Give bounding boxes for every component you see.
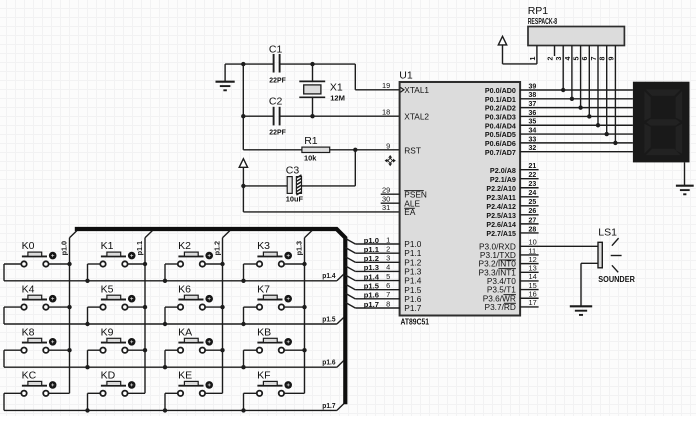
wire PSEN stub pin 29 bbox=[381, 193, 401, 195]
svg-text:22: 22 bbox=[529, 172, 537, 179]
wire ALE stub pin 30 bbox=[381, 202, 401, 204]
pin P3.5/T1 (15) label bbox=[487, 281, 537, 295]
node junction C2 left bbox=[241, 114, 245, 118]
svg-text:9: 9 bbox=[386, 142, 390, 151]
transistor(button) K0 bbox=[4, 240, 70, 281]
pin XTAL2 (18) label bbox=[382, 108, 429, 122]
svg-text:XTAL2: XTAL2 bbox=[404, 111, 429, 121]
svg-text:30: 30 bbox=[382, 195, 390, 204]
svg-text:P1.7: P1.7 bbox=[404, 303, 421, 313]
svg-text:p1.3: p1.3 bbox=[294, 241, 303, 256]
svg-text:P0.5/AD5: P0.5/AD5 bbox=[485, 130, 517, 139]
resistor R1 bbox=[243, 135, 400, 162]
transistor(button) KF bbox=[244, 370, 305, 411]
wire P3.6 stub pin 16 bbox=[520, 297, 539, 299]
svg-text:K8: K8 bbox=[22, 326, 35, 338]
svg-text:K4: K4 bbox=[22, 283, 35, 295]
wire P0.2 pin 37 bbox=[520, 107, 633, 109]
node junction KD drop bbox=[85, 408, 89, 412]
wire P0.3 pin 36 bbox=[520, 115, 633, 117]
transistor(button) K7 bbox=[244, 283, 305, 324]
node junction RP1 pin 4 bbox=[570, 97, 574, 101]
node junction K6 column bbox=[220, 305, 224, 309]
svg-text:37: 37 bbox=[529, 101, 537, 108]
wire P3.3 stub pin 13 bbox=[520, 271, 539, 273]
svg-text:19: 19 bbox=[382, 81, 390, 90]
node junction KF drop bbox=[241, 408, 245, 412]
wire RST to C3 bbox=[302, 150, 356, 186]
svg-text:32: 32 bbox=[529, 145, 537, 152]
svg-text:17: 17 bbox=[529, 298, 537, 307]
svg-text:23: 23 bbox=[529, 181, 537, 188]
svg-text:21: 21 bbox=[529, 163, 537, 170]
power VCC arrow (C3) bbox=[239, 159, 247, 186]
wire keypad row p1.5 bbox=[4, 317, 344, 324]
wire P1.6 from bus bbox=[345, 293, 400, 299]
svg-text:p1.4: p1.4 bbox=[322, 271, 336, 280]
node junction RP1 pin 9 bbox=[613, 141, 617, 145]
node junction RP1 pin 5 bbox=[578, 105, 582, 109]
pin RST (9) label bbox=[386, 142, 421, 156]
svg-text:XTAL1: XTAL1 bbox=[404, 85, 429, 95]
svg-text:p1.0: p1.0 bbox=[364, 236, 379, 245]
pin P0.5/AD5 (34) label bbox=[485, 127, 536, 139]
svg-text:KE: KE bbox=[178, 370, 192, 382]
ground (display) bbox=[676, 186, 694, 195]
svg-text:5: 5 bbox=[386, 272, 390, 281]
svg-text:14: 14 bbox=[529, 272, 537, 281]
svg-text:P0.2/AD2: P0.2/AD2 bbox=[485, 104, 516, 113]
svg-text:p1.6: p1.6 bbox=[364, 291, 379, 300]
wire display to ground bbox=[684, 162, 686, 185]
svg-text:6: 6 bbox=[582, 57, 589, 61]
transistor(button) KC bbox=[4, 370, 70, 411]
svg-text:P0.1/AD1: P0.1/AD1 bbox=[485, 95, 517, 104]
svg-text:K9: K9 bbox=[101, 326, 114, 338]
transistor(button) K3 bbox=[244, 240, 305, 281]
node junction RST/R1 bbox=[353, 148, 357, 152]
svg-text:4: 4 bbox=[565, 57, 572, 61]
svg-text:X1: X1 bbox=[330, 82, 343, 94]
svg-text:3: 3 bbox=[556, 57, 563, 61]
wire keypad column p1.1 bbox=[145, 231, 152, 394]
node junction K2 column bbox=[220, 262, 224, 266]
svg-text:LS1: LS1 bbox=[598, 227, 617, 239]
wire P2.5 stub pin 26 bbox=[520, 214, 539, 216]
node junction K9 column bbox=[143, 348, 147, 352]
transistor(button) K2 bbox=[165, 240, 223, 281]
svg-text:3: 3 bbox=[386, 254, 390, 263]
node junction K5 drop bbox=[85, 322, 89, 326]
pin P2.4/A12 (25) label bbox=[486, 199, 536, 211]
svg-text:P0.3/AD3: P0.3/AD3 bbox=[485, 113, 516, 122]
wire P1.7 from bus bbox=[345, 302, 400, 308]
wire keypad row p1.6 bbox=[4, 360, 344, 367]
svg-text:9: 9 bbox=[608, 57, 615, 61]
pin XTAL1 (19) label bbox=[382, 81, 429, 95]
svg-text:p1.5: p1.5 bbox=[322, 314, 335, 323]
wire P3.0 to sounder pin 10 bbox=[520, 245, 598, 247]
crystal X1 bbox=[299, 64, 345, 116]
pin P3.4/T0 (14) label bbox=[487, 272, 537, 286]
pin P1.0 (1) label bbox=[386, 235, 422, 249]
svg-text:22PF: 22PF bbox=[269, 75, 286, 84]
svg-text:P2.3/A11: P2.3/A11 bbox=[486, 193, 516, 202]
wire P3.7 stub pin 17 bbox=[520, 306, 539, 308]
pin P2.1/A9 (22) label bbox=[490, 172, 536, 184]
wire P3.5 stub pin 15 bbox=[520, 289, 539, 291]
node junction X1 bottom bbox=[310, 114, 314, 118]
svg-text:1: 1 bbox=[386, 235, 390, 244]
wire keypad column p1.2 bbox=[223, 231, 230, 394]
node junction KB column bbox=[302, 348, 306, 352]
svg-text:p1.6: p1.6 bbox=[322, 358, 335, 367]
pin P0.0/AD0 (39) label bbox=[485, 83, 536, 95]
svg-text:12M: 12M bbox=[330, 94, 345, 103]
wire RP1 pin 8 to P0.5 bbox=[600, 46, 607, 135]
wire P3.1 stub pin 11 bbox=[520, 254, 539, 256]
capacitor C1 bbox=[269, 43, 286, 84]
wire to XTAL1 bbox=[355, 64, 400, 90]
pin P2.3/A11 (24) label bbox=[486, 190, 536, 202]
node junction K2 drop bbox=[163, 279, 167, 283]
node junction X1-top bbox=[310, 62, 314, 66]
wire RP1 pin 5 to P0.2 bbox=[574, 46, 581, 108]
wire P0.4 pin 35 bbox=[520, 124, 633, 126]
svg-text:16: 16 bbox=[529, 290, 537, 299]
svg-text:22PF: 22PF bbox=[269, 127, 286, 136]
svg-text:P2.6/A14: P2.6/A14 bbox=[486, 220, 516, 229]
pin XTAL1 input chevron bbox=[400, 87, 404, 92]
node junction K0 column bbox=[67, 262, 71, 266]
svg-text:35: 35 bbox=[529, 119, 537, 126]
pin P2.6/A14 (27) label bbox=[486, 217, 536, 229]
svg-text:39: 39 bbox=[529, 83, 537, 90]
speaker LS1 SOUNDER bbox=[598, 227, 635, 284]
7-segment display body bbox=[633, 82, 690, 163]
transistor(button) K9 bbox=[88, 326, 146, 367]
wire keypad column p1.0 bbox=[70, 231, 77, 394]
pin P1.1 (2) label bbox=[386, 244, 422, 258]
svg-text:8: 8 bbox=[386, 299, 390, 308]
node junction RP1 pin 3 bbox=[561, 88, 565, 92]
wire RP1 pin 4 to P0.1 bbox=[565, 46, 572, 99]
svg-text:p1.1: p1.1 bbox=[364, 245, 379, 254]
node junction KA column bbox=[220, 348, 224, 352]
svg-text:10uF: 10uF bbox=[286, 194, 304, 203]
transistor(button) K1 bbox=[88, 240, 146, 281]
svg-text:29: 29 bbox=[382, 186, 390, 195]
wire P1.2 from bus bbox=[345, 257, 400, 263]
svg-text:2: 2 bbox=[547, 57, 554, 61]
node junction K6 drop bbox=[163, 322, 167, 326]
pin P1.2 (3) label bbox=[386, 254, 422, 268]
svg-text:7: 7 bbox=[591, 57, 598, 61]
svg-text:p1.2: p1.2 bbox=[364, 254, 379, 263]
wire P3.2 stub pin 12 bbox=[520, 263, 539, 265]
wire sounder to ground bbox=[581, 263, 598, 306]
pin P3.0/RXD (10) label bbox=[479, 238, 537, 252]
svg-text:p1.7: p1.7 bbox=[364, 300, 379, 309]
wire P0.0 pin 39 bbox=[520, 89, 633, 91]
svg-text:KA: KA bbox=[178, 326, 192, 338]
pin P1.7 (8) label bbox=[386, 299, 422, 313]
pin PSEN (29) label bbox=[382, 186, 427, 200]
origin marker near RST bbox=[385, 155, 396, 166]
wire RP1 pin 7 to P0.4 bbox=[591, 46, 598, 126]
wire C2 row bbox=[243, 115, 400, 117]
pin P2.7/A15 (28) label bbox=[486, 226, 536, 238]
svg-text:10: 10 bbox=[529, 238, 537, 247]
pin ALE (30) label bbox=[382, 195, 420, 209]
wire P0.7 pin 32 bbox=[520, 151, 633, 153]
svg-text:P2.1/A9: P2.1/A9 bbox=[490, 175, 516, 184]
svg-text:34: 34 bbox=[529, 127, 537, 134]
wire RP1 pin 9 to P0.6 bbox=[608, 46, 615, 143]
wire P0.1 pin 38 bbox=[520, 98, 633, 100]
svg-text:K7: K7 bbox=[257, 283, 270, 295]
svg-text:C2: C2 bbox=[269, 96, 283, 108]
pin P0.1/AD1 (38) label bbox=[485, 92, 536, 104]
transistor(button) K6 bbox=[165, 283, 223, 324]
svg-text:p1.3: p1.3 bbox=[364, 263, 379, 272]
svg-text:p1.4: p1.4 bbox=[364, 272, 380, 281]
svg-text:33: 33 bbox=[529, 136, 537, 143]
svg-text:P2.0/A8: P2.0/A8 bbox=[490, 166, 517, 175]
wire bbox=[280, 63, 356, 65]
pin P0.2/AD2 (37) label bbox=[485, 101, 536, 113]
svg-text:p1.0: p1.0 bbox=[59, 241, 68, 256]
svg-text:12: 12 bbox=[529, 255, 537, 264]
svg-text:C3: C3 bbox=[286, 165, 300, 177]
svg-text:KB: KB bbox=[257, 326, 271, 338]
wire P2.3 stub pin 24 bbox=[520, 196, 539, 198]
wire keypad column p1.3 bbox=[305, 231, 312, 394]
pin EA (31) label bbox=[382, 203, 416, 217]
node junction KE drop bbox=[163, 408, 167, 412]
node junction C1-left/gnd bbox=[241, 62, 245, 66]
wire bbox=[225, 63, 274, 65]
svg-text:K5: K5 bbox=[101, 283, 114, 295]
svg-text:K3: K3 bbox=[257, 240, 270, 252]
svg-text:K1: K1 bbox=[101, 240, 114, 252]
svg-text:P2.5/A13: P2.5/A13 bbox=[486, 211, 516, 220]
node junction K8 column bbox=[67, 348, 71, 352]
svg-text:p1.5: p1.5 bbox=[364, 282, 379, 291]
svg-text:RST: RST bbox=[404, 145, 421, 155]
wire VCC to C3 bbox=[243, 185, 287, 187]
svg-text:K6: K6 bbox=[178, 283, 191, 295]
svg-text:AT89C51: AT89C51 bbox=[401, 317, 430, 326]
svg-text:15: 15 bbox=[529, 281, 537, 290]
svg-text:10k: 10k bbox=[304, 153, 317, 162]
pin P3.1/TXD (11) label bbox=[480, 246, 536, 260]
wire P3.4 stub pin 14 bbox=[520, 280, 539, 282]
svg-text:27: 27 bbox=[529, 217, 537, 224]
ground bbox=[216, 64, 235, 90]
pin P3.2/INT0 (12) label bbox=[479, 255, 537, 269]
node junction K7 column bbox=[302, 305, 306, 309]
node junction K1 column bbox=[143, 262, 147, 266]
transistor(button) K5 bbox=[88, 283, 146, 324]
wire P1.0 from bus bbox=[345, 238, 400, 244]
svg-text:P2.7/A15: P2.7/A15 bbox=[486, 229, 516, 238]
svg-text:6: 6 bbox=[386, 281, 390, 290]
pin P2.2/A10 (23) label bbox=[486, 181, 536, 193]
svg-text:p1.1: p1.1 bbox=[135, 241, 144, 256]
svg-text:P0.7/AD7: P0.7/AD7 bbox=[485, 148, 516, 157]
bus P1 (thick) bbox=[75, 229, 346, 404]
svg-text:38: 38 bbox=[529, 92, 537, 99]
svg-text:SOUNDER: SOUNDER bbox=[598, 275, 635, 284]
node junction K4 column bbox=[67, 305, 71, 309]
transistor(button) K4 bbox=[4, 283, 70, 324]
wire RP1 pin 1 bbox=[503, 46, 537, 64]
svg-text:P0.6/AD6: P0.6/AD6 bbox=[485, 139, 516, 148]
resistor pack RP1 RESPACK-8 body bbox=[528, 5, 625, 45]
wire keypad row p1.7 bbox=[4, 404, 344, 411]
svg-text:26: 26 bbox=[529, 208, 537, 215]
wire P1.1 from bus bbox=[345, 248, 400, 254]
wire P0.6 pin 33 bbox=[520, 142, 633, 144]
wire P0.5 pin 34 bbox=[520, 133, 633, 135]
wire keypad row p1.4 bbox=[4, 274, 344, 281]
svg-text:P2.2/A10: P2.2/A10 bbox=[486, 184, 516, 193]
wire RP1 pin 6 to P0.3 bbox=[582, 46, 589, 117]
wire VCC to EA bbox=[243, 186, 400, 212]
transistor(button) KA bbox=[165, 326, 223, 367]
node junction K1 drop bbox=[85, 279, 89, 283]
wire P2.1 stub pin 22 bbox=[520, 178, 539, 180]
pin P0.7/AD7 (32) label bbox=[485, 145, 536, 157]
svg-text:K2: K2 bbox=[178, 240, 191, 252]
pin P0.3/AD3 (36) label bbox=[485, 110, 536, 122]
pin P1.5 (6) label bbox=[386, 281, 422, 295]
svg-text:P0.4/AD4: P0.4/AD4 bbox=[485, 121, 517, 130]
wire P2.0 stub pin 21 bbox=[520, 169, 539, 171]
node junction K3 drop bbox=[241, 279, 245, 283]
wire P2.4 stub pin 25 bbox=[520, 205, 539, 207]
node junction RP1 pin 6 bbox=[587, 114, 591, 118]
svg-text:RP1: RP1 bbox=[528, 5, 549, 17]
wire P1.4 from bus bbox=[345, 275, 400, 281]
svg-text:2: 2 bbox=[386, 244, 390, 253]
pin P3.6/WR (16) label bbox=[483, 290, 537, 304]
node junction RP1 pin 7 bbox=[596, 123, 600, 127]
svg-text:7: 7 bbox=[386, 290, 390, 299]
node junction K5 column bbox=[143, 305, 147, 309]
node junction K7 drop bbox=[241, 322, 245, 326]
svg-text:KD: KD bbox=[101, 370, 116, 382]
capacitor C2 bbox=[269, 96, 286, 137]
pin P1.4 (5) label bbox=[386, 272, 422, 286]
pin P2.5/A13 (26) label bbox=[486, 208, 536, 220]
svg-text:R1: R1 bbox=[304, 135, 318, 147]
node junction KA drop bbox=[163, 365, 167, 369]
wire P2.7 stub pin 28 bbox=[520, 232, 539, 234]
pin P0.4/AD4 (35) label bbox=[485, 119, 536, 131]
pin P0.6/AD6 (33) label bbox=[485, 136, 536, 148]
svg-text:K0: K0 bbox=[22, 240, 35, 252]
wire P1.5 from bus bbox=[345, 284, 400, 290]
node junction C3 left bbox=[241, 184, 245, 188]
wire RP1 pin 3 to P0.0 bbox=[556, 46, 563, 91]
svg-text:KF: KF bbox=[257, 370, 270, 382]
svg-text:RESPACK-8: RESPACK-8 bbox=[528, 17, 558, 26]
wire RP1 pin 2 stub bbox=[547, 46, 554, 61]
wire P2.6 stub pin 27 bbox=[520, 223, 539, 225]
svg-text:4: 4 bbox=[386, 263, 390, 272]
pin P1.3 (4) label bbox=[386, 263, 422, 277]
pin P3.7/RD (17) label bbox=[485, 298, 537, 312]
svg-text:13: 13 bbox=[529, 264, 537, 273]
svg-text:11: 11 bbox=[529, 246, 537, 255]
svg-text:25: 25 bbox=[529, 199, 537, 206]
capacitor C3 (polarized) bbox=[286, 165, 304, 204]
svg-text:24: 24 bbox=[529, 190, 537, 197]
svg-text:1: 1 bbox=[530, 57, 537, 61]
svg-text:KC: KC bbox=[22, 370, 37, 382]
svg-text:p1.2: p1.2 bbox=[212, 241, 221, 256]
svg-text:18: 18 bbox=[382, 108, 390, 117]
transistor(button) KE bbox=[165, 370, 223, 411]
svg-text:28: 28 bbox=[529, 226, 537, 233]
power VCC arrow (RP1) bbox=[498, 36, 506, 64]
svg-text:U1: U1 bbox=[399, 69, 413, 81]
transistor(button) K8 bbox=[4, 326, 70, 367]
svg-text:p1.7: p1.7 bbox=[322, 401, 335, 410]
pin P2.0/A8 (21) label bbox=[490, 163, 536, 175]
transistor(button) KD bbox=[88, 370, 146, 411]
svg-text:8: 8 bbox=[600, 57, 607, 61]
svg-text:5: 5 bbox=[574, 57, 581, 61]
wire left vertical bbox=[242, 64, 244, 150]
node junction K3 column bbox=[302, 262, 306, 266]
svg-text:36: 36 bbox=[529, 110, 537, 117]
transistor(button) KB bbox=[244, 326, 305, 367]
svg-text:C1: C1 bbox=[269, 43, 283, 55]
pin P1.6 (7) label bbox=[386, 290, 422, 304]
svg-text:31: 31 bbox=[382, 203, 390, 212]
pin P3.3/INT1 (13) label bbox=[479, 264, 537, 278]
svg-text:P2.4/A12: P2.4/A12 bbox=[486, 202, 516, 211]
svg-text:P0.0/AD0: P0.0/AD0 bbox=[485, 86, 516, 95]
node junction KB drop bbox=[241, 365, 245, 369]
node junction K9 drop bbox=[85, 365, 89, 369]
wire P2.2 stub pin 23 bbox=[520, 187, 539, 189]
node junction RP1 pin 8 bbox=[605, 132, 609, 136]
op-amp U1 AT89C51 body bbox=[400, 82, 520, 316]
wire P1.3 from bus bbox=[345, 266, 400, 272]
ground (LS1) bbox=[570, 306, 592, 315]
